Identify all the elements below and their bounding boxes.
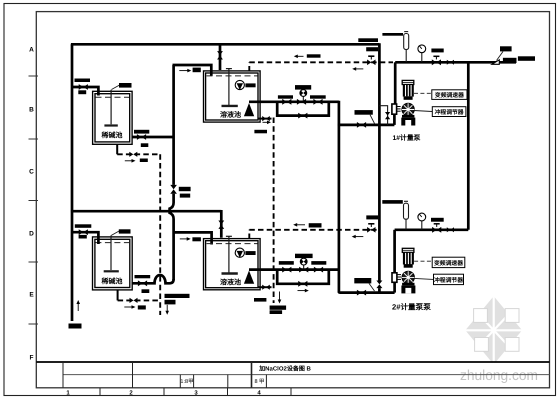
callout box C4 leader: [414, 278, 433, 279]
discharge 2 union: [447, 227, 454, 232]
chemical cross vertical: [338, 101, 341, 293]
discharge header 1: [395, 61, 516, 64]
svg-text:zhulong.com: zhulong.com: [460, 368, 538, 384]
manifold 1 valve 1: [282, 99, 291, 105]
transfer bottom run to tank D2: [173, 232, 212, 244]
D1 fill drop hourglass: [217, 51, 223, 59]
svg-text:稀碱池: 稀碱池: [102, 276, 123, 285]
bottom ruler dividers: [100, 388, 291, 395]
solution tank D2 shell: [204, 239, 261, 290]
T1 drain arrow: [125, 160, 133, 162]
bypass 1 valve: [298, 113, 307, 119]
pump2 suction branch: [339, 292, 395, 293]
pump2 discharge downpipe: [393, 230, 396, 273]
callout box C2: [432, 107, 466, 117]
transfer bottom run label: [192, 237, 201, 241]
pump1 discharge downpipe: [394, 62, 397, 104]
pump1 base: [401, 115, 415, 126]
D1 overflow arrow 2: [355, 68, 363, 70]
D1 bottom outlet valve: [259, 118, 272, 120]
discharge 2 valve label: [431, 218, 444, 222]
callout box C2 leader: [414, 111, 432, 112]
T1 fill pipe: [71, 87, 98, 96]
T2 outlet valve: [138, 280, 147, 286]
T2 fill valve: [79, 229, 88, 235]
D2 bottom outlet valve: [259, 286, 272, 288]
T1 drain dashed run: [117, 153, 160, 155]
pump1 motor: [402, 80, 414, 99]
pump1 damper: [392, 104, 397, 114]
transfer top run arrow: [179, 70, 188, 72]
manifold 2 pipe: [249, 268, 339, 271]
manifold 2 label left: [279, 261, 294, 265]
transfer valve label a: [179, 187, 191, 191]
svg-text:E: E: [29, 292, 34, 299]
D2 mixer motor: [235, 248, 255, 258]
transfer crossover valve: [170, 185, 177, 194]
svg-text:加NaClO2设备图 B: 加NaClO2设备图 B: [258, 365, 311, 373]
pump1 suction leader: [370, 115, 375, 124]
svg-text:1#计量泵: 1#计量泵: [393, 134, 421, 142]
pump1 suction-up stub: [393, 114, 396, 125]
pump2 damper: [392, 273, 397, 283]
solution tank D1 level: [207, 75, 258, 77]
title block mid line: [63, 374, 550, 376]
small tank T2 agitator: [104, 235, 119, 271]
manifold 1 pipe: [249, 100, 339, 103]
svg-text:1:8甲: 1:8甲: [180, 378, 193, 385]
T2 outlet pipe with hop: [132, 275, 174, 283]
bypass 2 arrow: [298, 290, 306, 292]
pump1 flush loop: [379, 106, 387, 125]
T1 fill label above: [75, 79, 91, 83]
callout box C3: [432, 257, 465, 267]
manifold 1 valve 2: [297, 99, 306, 105]
water supply pipe (left riser): [71, 44, 74, 321]
svg-text:冲程调节器: 冲程调节器: [435, 109, 464, 116]
bypass 2 valve: [298, 281, 307, 287]
small tank T2 agitator label: [119, 229, 131, 233]
D1 overflow arrow 1: [297, 55, 304, 57]
callout box C1 leader: [414, 92, 432, 94]
svg-text:F: F: [30, 355, 34, 362]
main drain dashed (vertical): [159, 154, 161, 315]
svg-text:溶液池: 溶液池: [220, 277, 241, 286]
title block dividers: [63, 362, 266, 388]
D2 overflow globe valve: [367, 227, 375, 233]
discharge 2 valve: [432, 227, 441, 233]
discharge 1 valve: [432, 59, 441, 65]
column2 label: [382, 200, 403, 204]
callout box C3 leader: [414, 260, 432, 262]
T1 outlet label below: [141, 143, 149, 147]
pump2 base: [401, 283, 415, 294]
outlet end bar: [503, 58, 517, 63]
riser top label: [382, 33, 403, 36]
D2 fill drop hourglass: [218, 221, 224, 229]
pump2 suction valve: [357, 290, 366, 296]
drain end label a: [165, 294, 190, 298]
big drain label c: [270, 310, 283, 314]
small tank T1 agitator: [104, 90, 117, 126]
manifold 1 label mid: [295, 85, 311, 90]
title block top line: [36, 361, 549, 363]
discharge header 2: [395, 228, 469, 231]
T2 fill pipe: [71, 232, 98, 244]
T2 outlet label below: [142, 289, 150, 293]
pump1 head: [402, 103, 414, 115]
big drain dashed: [273, 118, 275, 304]
manifold 2 valve 2: [299, 267, 308, 273]
discharge 1 union: [447, 60, 454, 65]
pump1 suction valve: [357, 122, 366, 128]
small tank T1 agitator label: [119, 83, 132, 88]
pump2 suction leader: [369, 283, 375, 291]
svg-text:B: B: [29, 107, 34, 114]
D1 overflow dashed: [249, 62, 393, 71]
D1 overflow label 1: [307, 54, 321, 57]
pump2 head: [402, 271, 414, 283]
D2 overflow arrow 2: [355, 236, 364, 238]
top header label: [358, 38, 378, 42]
calibration column 2: [404, 201, 409, 229]
T2 drain arrow: [124, 306, 132, 308]
transfer vertical pipe: [170, 65, 174, 280]
T2 drain valve: [130, 298, 138, 303]
right water riser: [378, 43, 381, 292]
svg-text:8 甲: 8 甲: [254, 378, 264, 385]
T2 drain dashed run: [118, 299, 161, 301]
D2 suction foot (triangle): [244, 271, 254, 284]
D2 overflow label 1: [309, 223, 322, 227]
D2 fill drop valve: [220, 210, 223, 238]
pump2 suction-up stub: [393, 282, 396, 292]
pump1 flush valve: [385, 112, 390, 119]
manifold 2 label right: [311, 261, 326, 265]
discharge 1 valve label: [431, 49, 443, 53]
manifold 2 gauge: [300, 258, 307, 269]
T1 drain valve: [129, 152, 137, 157]
T1 fill valve: [79, 84, 88, 90]
D1 mixer motor: [235, 80, 255, 90]
manifold 1 label left: [278, 95, 293, 98]
transfer valve label b: [180, 194, 190, 198]
pump2 riser valve: [376, 281, 383, 289]
manifold 1 gauge: [300, 90, 307, 101]
svg-text:稀碱池: 稀碱池: [102, 130, 123, 139]
drain end label b: [165, 300, 176, 305]
solution tank D1 shell: [204, 71, 261, 122]
T1 drain label: [140, 159, 148, 163]
bottom ruler numbers: [66, 389, 261, 396]
outlet check leader: [497, 52, 504, 61]
small tank T2 shell: [93, 237, 133, 290]
big drain label a: [254, 298, 266, 302]
row labels A-F: [29, 47, 34, 362]
middle water header: [71, 210, 221, 213]
manifold 2 valve 1: [282, 267, 291, 273]
big drain label b: [270, 306, 287, 310]
solution tank D2 level: [207, 243, 258, 245]
D1 fill drop valve: [219, 44, 222, 71]
svg-text:变频调速器: 变频调速器: [434, 259, 463, 267]
D1 drain label: [254, 130, 267, 134]
pump1 suction label: [355, 110, 373, 115]
pump2 motor: [402, 248, 414, 267]
small tank T2 liquid level: [95, 242, 129, 244]
drain end arrow: [166, 305, 168, 312]
T1 drain stub: [116, 144, 118, 154]
T2 drain stub: [117, 290, 119, 301]
transfer top run label: [193, 68, 201, 73]
pump2 suction label: [354, 278, 371, 283]
pump2 flange marks: [397, 275, 401, 280]
row ticks: [29, 76, 39, 324]
D1 agitator: [222, 69, 238, 106]
D1 overflow valve label: [366, 47, 378, 51]
T1 outlet pipe: [132, 136, 174, 139]
svg-text:D: D: [29, 231, 34, 238]
transfer bottom run arrow: [180, 238, 188, 240]
top water header: [71, 43, 380, 46]
small tank T2 agitator leader: [111, 231, 120, 236]
svg-text:溶液池: 溶液池: [220, 110, 241, 119]
big drain arrow: [279, 292, 281, 301]
D2 overflow valve label: [366, 215, 378, 219]
svg-text:冲程调节器: 冲程调节器: [434, 277, 463, 284]
T2 outlet label above: [135, 275, 151, 278]
outlet check valve: [492, 60, 499, 65]
pump1 flange marks: [397, 107, 401, 112]
calibration column 1: [404, 32, 409, 62]
small tank T1 liquid level: [96, 96, 130, 98]
T1 outlet label above: [134, 130, 149, 134]
callout box C4: [434, 274, 464, 284]
manifold 2 label mid: [295, 254, 313, 258]
manifold 1 label right: [310, 95, 326, 98]
watermark pinwheel logo: [465, 296, 522, 364]
bypass 1 loop: [277, 101, 329, 116]
outlet label above: [500, 46, 512, 51]
T1 fill label below: [78, 90, 86, 94]
D1 overflow globe valve: [367, 60, 375, 66]
bypass 2 loop: [277, 269, 329, 284]
svg-text:2#计量泵泵: 2#计量泵泵: [392, 303, 431, 312]
transfer top run to tank D1: [173, 65, 212, 76]
pressure gauge 2: [418, 213, 426, 229]
T2 fill label above: [75, 224, 92, 228]
svg-text:C: C: [29, 169, 34, 176]
small tank T1 agitator leader: [112, 85, 121, 90]
T2 fill label below: [79, 235, 87, 239]
small tank T1 shell: [93, 91, 133, 144]
callout box C1: [432, 90, 467, 100]
D2 agitator: [222, 236, 238, 273]
manifold 2 valve 3: [314, 267, 323, 273]
T1 outlet valve: [137, 134, 146, 140]
svg-text:变频调速器: 变频调速器: [435, 91, 464, 99]
pump1 suction branch: [338, 124, 395, 127]
water inlet label: [69, 324, 82, 329]
T2 drain label: [138, 305, 146, 309]
water inlet up-arrow: [77, 303, 79, 311]
svg-text:A: A: [29, 47, 34, 54]
manifold 1 valve 3: [313, 99, 322, 105]
D1 suction foot (triangle): [244, 103, 254, 116]
D1 outlet arrow: [263, 121, 269, 123]
D2 overflow dashed: [249, 230, 379, 239]
discharge junction riser: [467, 62, 470, 230]
D2 overflow arrow 1: [296, 224, 305, 226]
pressure gauge 1: [418, 45, 426, 62]
outlet label right: [518, 56, 535, 61]
